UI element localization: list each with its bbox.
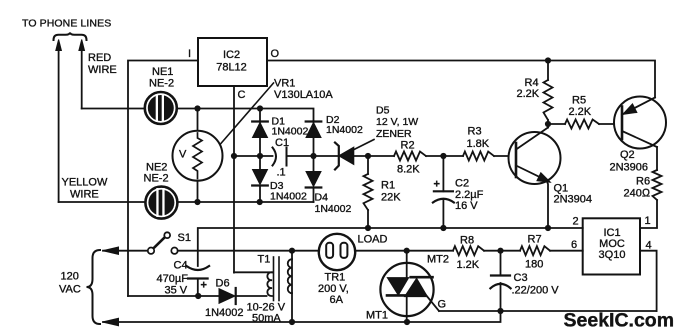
wire varistor bottom lead <box>197 181 199 203</box>
resistor R3 <box>463 152 494 161</box>
neon lamp NE2 <box>145 187 177 219</box>
arrow red line <box>79 40 85 51</box>
svg-text:1.8K: 1.8K <box>467 138 490 150</box>
svg-text:3Q10: 3Q10 <box>599 249 626 261</box>
svg-text:6A: 6A <box>330 294 344 306</box>
callout line ZENER <box>353 140 374 151</box>
capacitor C3 <box>490 251 510 311</box>
resistor R8 <box>453 246 484 255</box>
regulator IC2 box <box>198 38 267 86</box>
svg-text:D4: D4 <box>315 192 329 204</box>
transistor Q1 <box>509 128 561 185</box>
wire yellow phone-line vertical <box>58 48 60 202</box>
svg-text:120: 120 <box>61 271 79 283</box>
diode D4 <box>306 156 322 202</box>
wire Q2 collector to R6 <box>656 147 658 170</box>
svg-text:S1: S1 <box>178 232 191 244</box>
wire Q1 collector to node <box>547 124 549 128</box>
transformer T1 <box>234 251 292 322</box>
resistor R1 <box>364 156 373 228</box>
svg-text:Q2: Q2 <box>620 149 635 161</box>
svg-text:VR1: VR1 <box>274 78 295 90</box>
svg-text:WIRE: WIRE <box>88 64 117 76</box>
wire IC2 common pin C <box>233 86 235 273</box>
svg-text:TR1: TR1 <box>325 272 346 284</box>
brace 120VAC <box>87 250 101 324</box>
capacitor C1 <box>273 148 287 166</box>
diode D2 <box>306 121 322 156</box>
svg-text:T1: T1 <box>258 254 271 266</box>
svg-text:R8: R8 <box>460 235 474 247</box>
svg-text:MT1: MT1 <box>366 310 388 322</box>
svg-text:R7: R7 <box>528 234 542 246</box>
wire R2 to C2 node <box>426 155 463 157</box>
svg-text:NE1: NE1 <box>152 66 173 78</box>
resistor R6 <box>640 170 662 228</box>
svg-text:8.2K: 8.2K <box>397 164 420 176</box>
svg-text:R1: R1 <box>381 180 395 192</box>
wire red phone-line vertical <box>81 48 83 109</box>
wire Q1 emitter down <box>547 181 549 229</box>
svg-text:R6: R6 <box>636 176 650 188</box>
svg-text:MT2: MT2 <box>427 254 449 266</box>
capacitor C2 <box>433 156 454 228</box>
resistor R7 <box>520 246 550 255</box>
svg-text:NE-2: NE-2 <box>144 173 169 185</box>
transistor Q2 <box>614 97 666 149</box>
svg-text:C3: C3 <box>514 272 528 284</box>
svg-text:C: C <box>238 89 246 101</box>
wire R3 to Q1 base <box>494 155 516 157</box>
svg-text:470µF: 470µF <box>157 273 189 285</box>
wire mid row to zener <box>287 155 339 157</box>
wire emitter ground rail <box>198 228 583 266</box>
svg-text:4: 4 <box>646 240 652 252</box>
svg-text:NE-2: NE-2 <box>149 78 174 90</box>
svg-text:22K: 22K <box>381 192 401 204</box>
svg-text:VAC: VAC <box>59 284 81 296</box>
svg-text:I: I <box>188 48 191 60</box>
neon lamp NE1 <box>145 92 177 124</box>
wire R7 to IC1 pin6 <box>550 250 583 252</box>
svg-text:WIRE: WIRE <box>70 189 99 201</box>
wire IC2 input from left column <box>128 61 198 297</box>
receptacle TR1 <box>319 234 355 270</box>
resistor R5 <box>548 120 622 129</box>
wire 120VAC bottom rail <box>103 311 501 322</box>
svg-text:LOAD: LOAD <box>358 234 388 246</box>
svg-text:D6: D6 <box>216 278 230 290</box>
triac TR <box>380 251 439 322</box>
svg-text:78L12: 78L12 <box>216 62 247 74</box>
svg-text:R5: R5 <box>572 95 586 107</box>
varistor VR1 <box>173 131 223 181</box>
svg-text:2N3904: 2N3904 <box>554 194 593 206</box>
svg-text:+: + <box>434 179 440 191</box>
svg-text:12 V, 1W: 12 V, 1W <box>376 116 418 128</box>
svg-text:1.2K: 1.2K <box>457 259 480 271</box>
capacitor C4 <box>187 266 210 296</box>
svg-text:6: 6 <box>571 239 577 251</box>
svg-text:V: V <box>179 149 187 161</box>
svg-text:1N4002: 1N4002 <box>326 124 363 136</box>
svg-text:2: 2 <box>573 216 579 228</box>
svg-text:35 V: 35 V <box>165 285 188 297</box>
wire D6 row <box>128 295 219 297</box>
arrow 120VAC bottom <box>103 318 119 325</box>
svg-text:IC2: IC2 <box>223 49 240 61</box>
svg-text:R2: R2 <box>401 140 415 152</box>
svg-text:C1: C1 <box>275 137 289 149</box>
svg-text:.1: .1 <box>277 167 286 179</box>
wire red row to bridge <box>82 109 314 122</box>
svg-text:1N4002: 1N4002 <box>315 203 352 215</box>
svg-text:O: O <box>271 48 280 60</box>
svg-text:2.2K: 2.2K <box>517 88 540 100</box>
diode D3 <box>252 156 268 202</box>
diode D6 <box>219 288 267 304</box>
svg-text:16 V: 16 V <box>455 200 478 212</box>
wire 120VAC top rail <box>103 250 148 252</box>
svg-text:+: + <box>201 280 207 292</box>
svg-text:2.2K: 2.2K <box>569 106 592 118</box>
svg-text:1N4002: 1N4002 <box>270 191 307 203</box>
svg-text:C2: C2 <box>455 178 469 190</box>
wire mid row left segment <box>234 155 273 157</box>
wire zener to R2 <box>354 155 395 157</box>
svg-text:RED: RED <box>88 52 111 64</box>
svg-text:1: 1 <box>645 215 651 227</box>
svg-text:50mA: 50mA <box>252 313 281 325</box>
resistor R4 <box>544 61 553 125</box>
svg-text:1N4002: 1N4002 <box>272 126 309 138</box>
wire IC1 pin4 to gate row <box>640 251 657 311</box>
wire yellow row to bridge <box>59 201 314 203</box>
svg-text:180: 180 <box>525 259 543 271</box>
svg-text:.22/200 V: .22/200 V <box>512 285 560 297</box>
wire IC2 output rail <box>267 61 655 98</box>
svg-text:2N3906: 2N3906 <box>610 162 649 174</box>
svg-text:SeekIC.com: SeekIC.com <box>564 310 675 332</box>
wire varistor top lead <box>197 109 199 132</box>
svg-text:TO PHONE LINES: TO PHONE LINES <box>22 18 111 30</box>
arrow 120VAC top <box>103 247 119 254</box>
svg-text:V130LA10A: V130LA10A <box>274 89 333 101</box>
optocoupler IC1 box <box>583 218 640 274</box>
svg-text:ZENER: ZENER <box>376 128 412 140</box>
svg-text:G: G <box>438 299 447 311</box>
svg-text:C4: C4 <box>174 260 188 272</box>
svg-text:R3: R3 <box>468 126 482 138</box>
svg-text:YELLOW: YELLOW <box>62 177 108 189</box>
diode D1 <box>252 109 268 157</box>
brace phone lines <box>54 33 87 40</box>
callout line VR1 <box>220 83 274 145</box>
resistor R2 <box>394 152 426 161</box>
svg-text:240Ω: 240Ω <box>624 188 651 200</box>
wire gate row <box>439 310 657 312</box>
svg-text:D5: D5 <box>376 105 390 117</box>
svg-text:1N4002: 1N4002 <box>205 307 244 319</box>
wire S1 to load rail <box>178 250 453 252</box>
wire R8 to R7 segment <box>484 250 520 252</box>
switch S1 <box>148 232 178 254</box>
arrow yellow line <box>56 40 62 51</box>
zener diode D5 <box>335 143 354 170</box>
